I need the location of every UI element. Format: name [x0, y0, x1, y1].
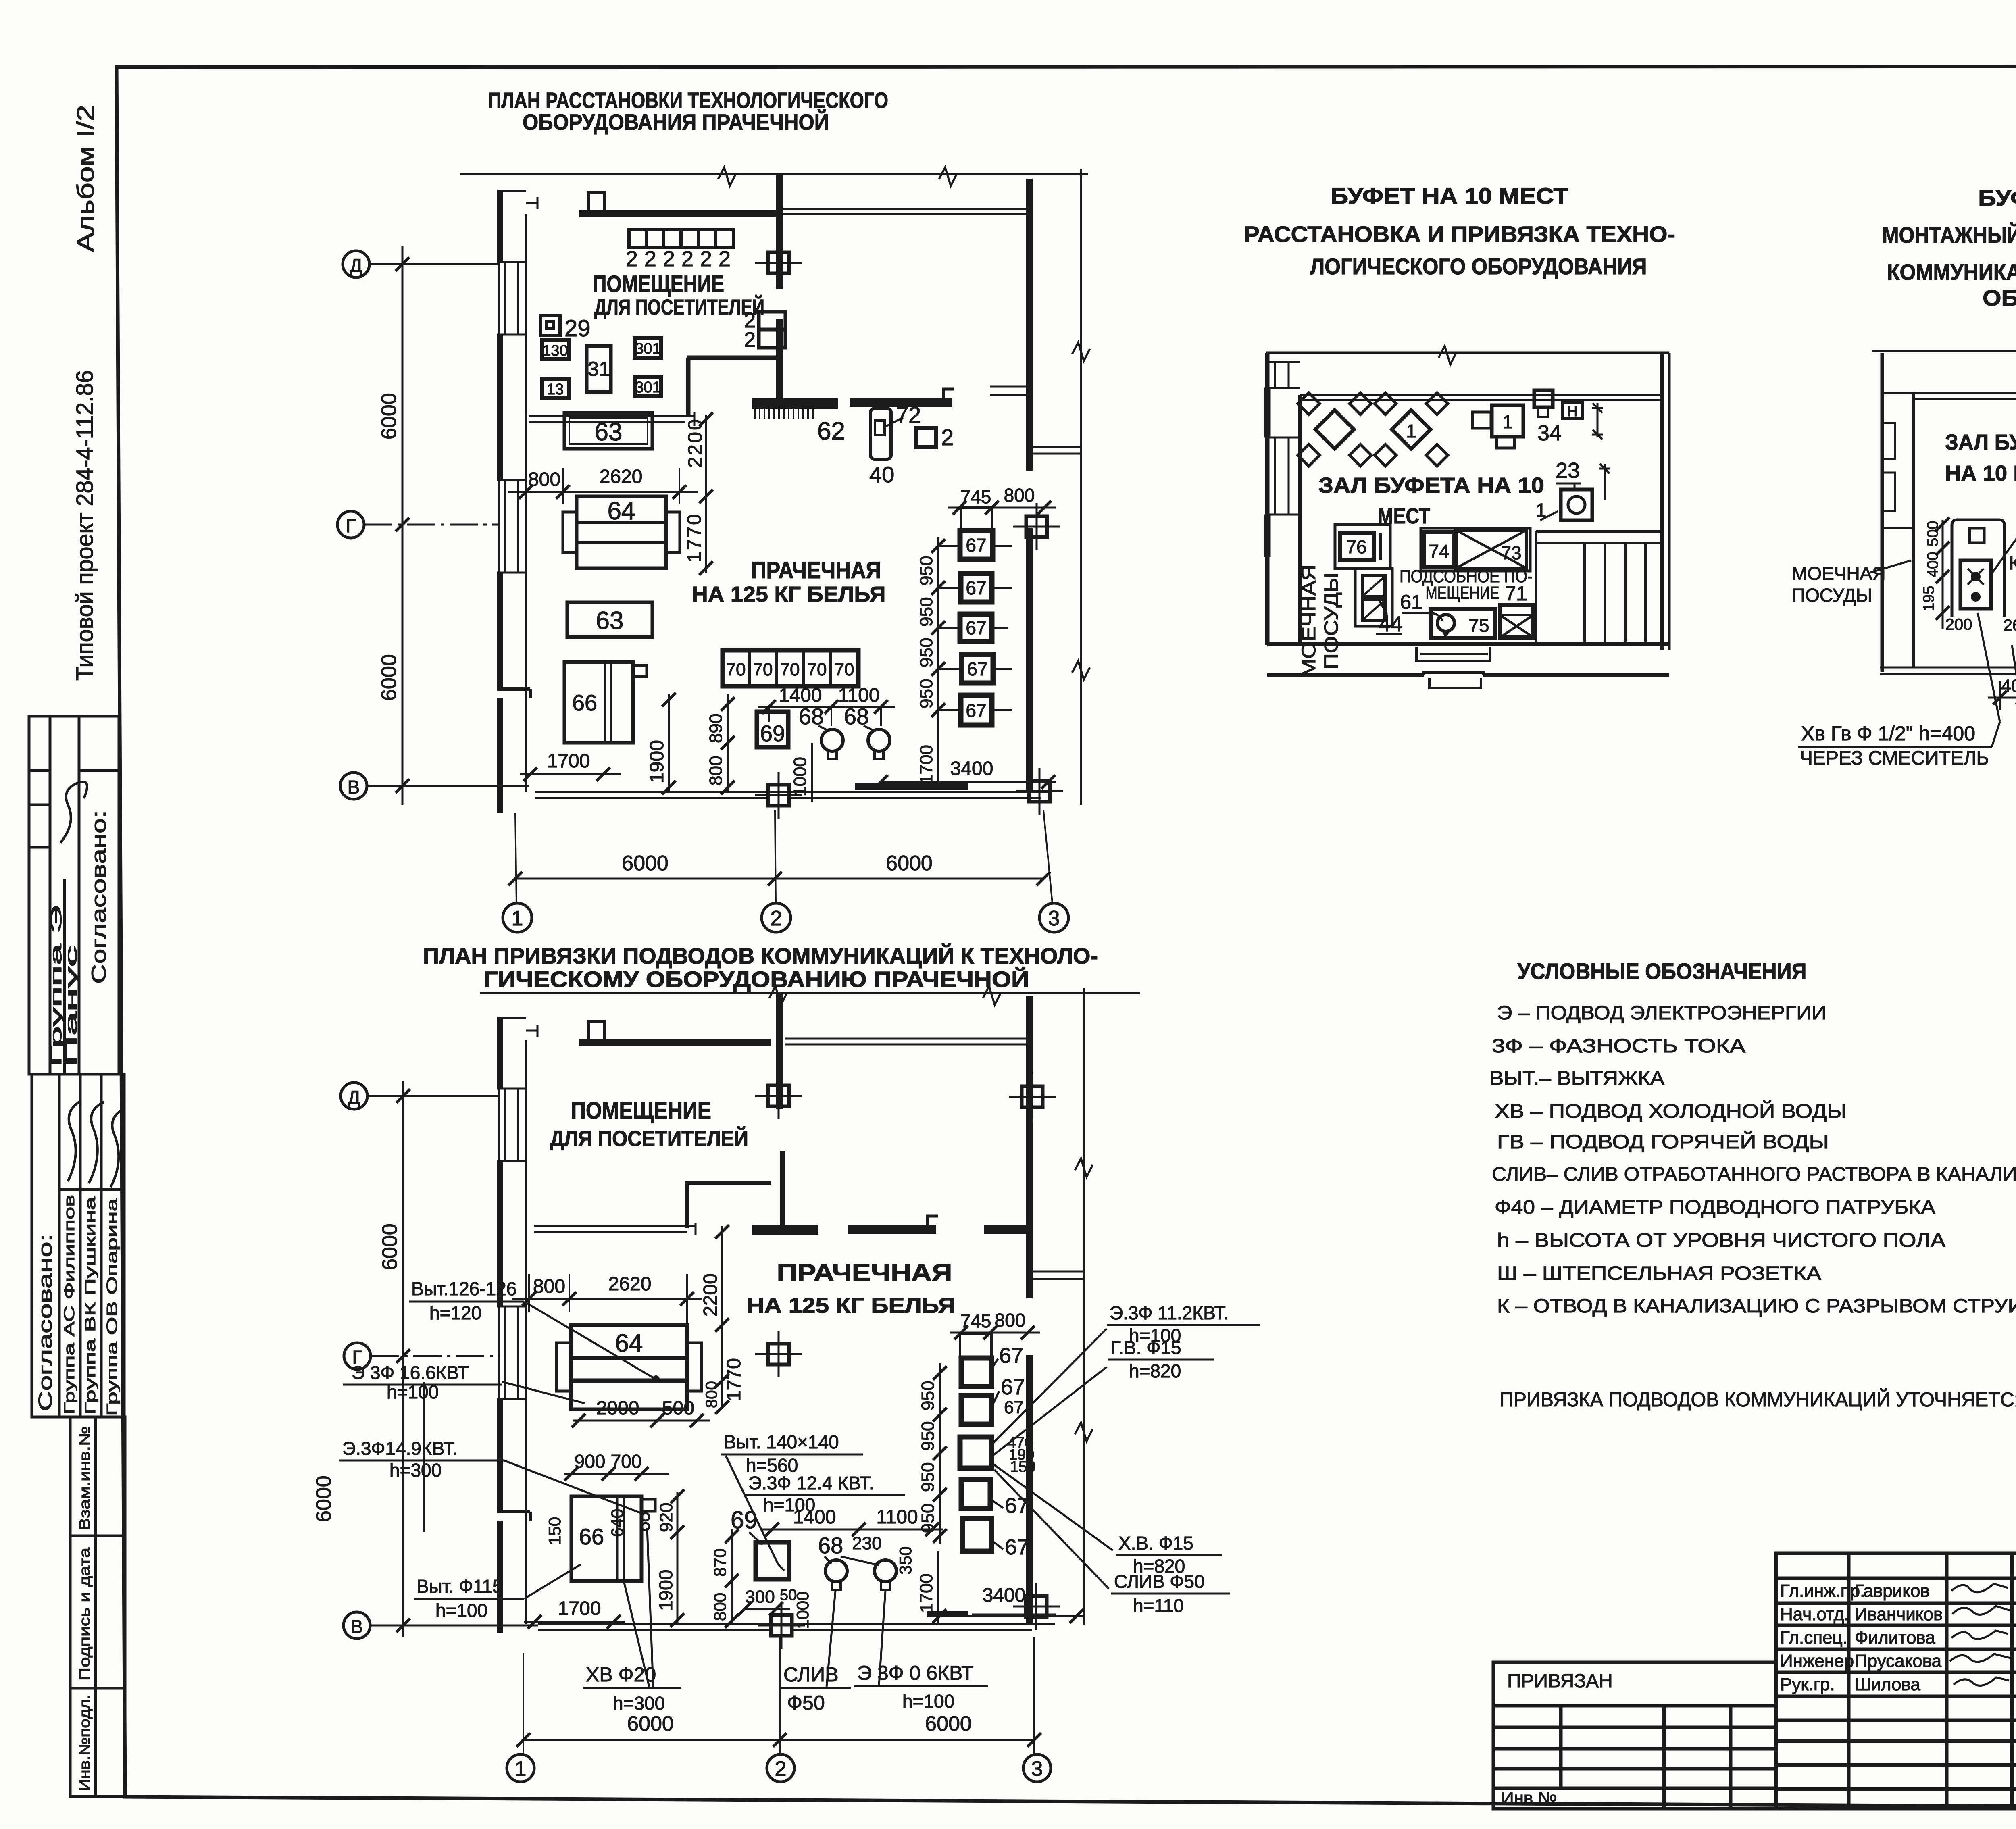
- plan3 unit 74 73: [1421, 528, 1530, 571]
- svg-text:230: 230: [852, 1533, 881, 1553]
- plan4 label Моечная посуды: [1792, 560, 1911, 606]
- svg-text:Г: Г: [346, 515, 356, 536]
- plan2 callout ХВ Ф20: [583, 1528, 681, 1714]
- svg-text:6000: 6000: [925, 1712, 972, 1735]
- svg-text:Инв.№: Инв.№: [1501, 1788, 1557, 1808]
- svg-text:ДЛЯ ПОСЕТИТЕЛЕЙ: ДЛЯ ПОСЕТИТЕЛЕЙ: [550, 1126, 748, 1151]
- svg-text:h=100: h=100: [435, 1600, 487, 1621]
- column marker axis2 at В: [758, 1602, 805, 1649]
- svg-text:h=820: h=820: [1129, 1360, 1181, 1381]
- plan2 dim 2000/500: [572, 1398, 710, 1427]
- svg-text:К – ОТВОД В КАНАЛИЗАЦИЮ С: К – ОТВОД В КАНАЛИЗАЦИЮ С РАЗРЫВОМ СТРУИ…: [1497, 1296, 2016, 1317]
- svg-text:К: К: [2009, 552, 2016, 573]
- plan2 inner partition: [685, 1183, 771, 1228]
- plan1 partition wall axis2 upper: [776, 175, 783, 289]
- svg-text:1400: 1400: [793, 1506, 836, 1528]
- svg-text:1700: 1700: [916, 1573, 936, 1613]
- plan2 callout Выт.126-126: [409, 1278, 655, 1379]
- svg-text:67: 67: [966, 577, 986, 598]
- svg-text:150: 150: [1010, 1458, 1035, 1475]
- plan2 axis circle 2: [767, 1754, 794, 1782]
- axis circle 2: [762, 903, 791, 932]
- svg-text:МОНТАЖНЫЙ ПЛАН ПРИВЯЗКИ ПОДВОД: МОНТАЖНЫЙ ПЛАН ПРИВЯЗКИ ПОДВОДОВ: [1882, 222, 2016, 248]
- plan4 bottom dims 400 400 1600: [1988, 675, 2016, 710]
- column marker axis3 at Д level: [1009, 1073, 1056, 1120]
- plan3 stairs: [1536, 531, 1662, 642]
- column marker axis3 at В: [1016, 768, 1063, 815]
- title block outer: [1776, 1553, 2016, 1809]
- svg-text:В: В: [351, 1616, 363, 1637]
- plan2 callout Слив Ф50: [781, 1591, 851, 1714]
- svg-text:950: 950: [916, 679, 936, 708]
- svg-text:Группа АС Филиппов: Группа АС Филиппов: [61, 1195, 77, 1414]
- svg-text:Рук.гр.: Рук.гр.: [1780, 1675, 1835, 1694]
- svg-text:Э.3Ф 12.4 КВТ.: Э.3Ф 12.4 КВТ.: [748, 1473, 874, 1494]
- plan2 callout Э 3Ф 06КВТ: [854, 1591, 988, 1712]
- equipment 69: [757, 712, 788, 747]
- svg-text:МОЕЧНАЯ: МОЕЧНАЯ: [1298, 565, 1320, 677]
- svg-text:Выт.126-126: Выт.126-126: [411, 1278, 516, 1299]
- plan1 visitors room bottom counter line: [529, 412, 694, 426]
- svg-text:64: 64: [615, 1329, 643, 1357]
- plan2 callout Э.3Ф 11.2КВТ: [1107, 1302, 1260, 1346]
- equipment 130: [542, 340, 569, 359]
- svg-text:НА 125 КГ БЕЛЬЯ: НА 125 КГ БЕЛЬЯ: [747, 1294, 956, 1318]
- equipment 31: [587, 346, 611, 392]
- plan2 top wall right thin extension: [785, 1039, 1026, 1044]
- svg-text:67: 67: [1005, 1494, 1029, 1518]
- svg-text:Выт. 140×140: Выт. 140×140: [724, 1431, 839, 1452]
- svg-text:БУФЕТ НА 10 МЕСТ: БУФЕТ НА 10 МЕСТ: [1978, 185, 2016, 210]
- plan2 right wall lower: [1026, 1355, 1033, 1624]
- svg-text:Филитова: Филитова: [1855, 1628, 1935, 1648]
- equipment 29: [541, 315, 591, 342]
- svg-text:Х.В. Ф15: Х.В. Ф15: [1118, 1533, 1193, 1554]
- plan1 bottom wall bar: [855, 783, 968, 790]
- svg-text:950: 950: [918, 1504, 938, 1533]
- plan2 axis circle Г: [344, 1343, 500, 1369]
- svg-text:Взам.инв.№: Взам.инв.№: [76, 1426, 93, 1530]
- equipment 68 b: [868, 729, 890, 759]
- svg-text:64: 64: [608, 497, 635, 525]
- svg-text:2620: 2620: [608, 1273, 652, 1295]
- plan4 sink 44: [1952, 520, 2004, 617]
- svg-text:В: В: [348, 777, 360, 798]
- approval table 1: [29, 716, 119, 1074]
- svg-text:ПОСУДЫ: ПОСУДЫ: [1321, 573, 1342, 669]
- svg-text:1100: 1100: [838, 685, 879, 706]
- plan2 bottom wall bar: [927, 1611, 968, 1617]
- label 68 b: [844, 704, 876, 731]
- plan2 axis circle В: [344, 1612, 538, 1639]
- plan2 branch to dim line: [1033, 1271, 1084, 1279]
- plan4 sink dim chain: [1920, 517, 2016, 634]
- plan4 top dim line: [1872, 344, 2016, 363]
- plan2 dim 800/2620: [512, 1273, 702, 1325]
- plan2 dim 640/150/920/1900: [545, 1489, 684, 1627]
- plan1 left axis dim line: [377, 246, 409, 805]
- svg-text:67: 67: [966, 535, 986, 556]
- svg-text:950: 950: [916, 638, 936, 667]
- svg-text:1700: 1700: [558, 1598, 601, 1619]
- svg-text:950: 950: [918, 1421, 938, 1451]
- svg-text:6000: 6000: [622, 852, 669, 875]
- plan2 dim 950 chain: [918, 1363, 947, 1544]
- plan2 partition wall axis2 mid stub: [780, 1151, 785, 1225]
- plan2 wall bar mid: [848, 1216, 938, 1234]
- svg-text:76: 76: [1346, 536, 1366, 557]
- svg-text:h=120: h=120: [429, 1302, 481, 1323]
- svg-text:3400: 3400: [950, 758, 993, 779]
- equipment 70 row: [723, 650, 858, 686]
- svg-text:1900: 1900: [646, 740, 668, 783]
- svg-text:67: 67: [966, 700, 986, 721]
- axis circle Д: [343, 251, 500, 277]
- svg-text:Нач.отд.: Нач.отд.: [1780, 1604, 1849, 1624]
- svg-text:301: 301: [635, 340, 660, 357]
- signatures: [1950, 1584, 2011, 1685]
- svg-text:1: 1: [1406, 421, 1416, 442]
- svg-text:1770: 1770: [723, 1358, 745, 1401]
- plan1 partition wall axis2 lower: [776, 319, 783, 400]
- svg-text:350: 350: [896, 1546, 915, 1575]
- plan2 axis circle Д: [341, 1083, 500, 1109]
- plan2 label 68: [818, 1533, 879, 1565]
- plan2 dims 1700/3400 right: [916, 1551, 1084, 1625]
- plan1 dim 1700: [520, 750, 621, 781]
- svg-text:ХВ – ПОДВОД ХОЛОДНОЙ ВОДЫ: ХВ – ПОДВОД ХОЛОДНОЙ ВОДЫ: [1495, 1100, 1847, 1122]
- svg-text:44: 44: [1379, 612, 1403, 636]
- svg-text:1: 1: [515, 1757, 527, 1781]
- plan4 label 44: [1991, 496, 2016, 575]
- plan3 fridge 1: [1472, 405, 1523, 448]
- svg-text:МОЕЧНАЯ: МОЕЧНАЯ: [1792, 563, 1886, 584]
- privyazan block: [1493, 1662, 1776, 1809]
- svg-text:67: 67: [1001, 1375, 1025, 1399]
- svg-text:1: 1: [512, 907, 523, 930]
- svg-text:ГИЧЕСКОМУ ОБОРУДОВАНИЮ ПРАЧЕЧН: ГИЧЕСКОМУ ОБОРУДОВАНИЮ ПРАЧЕЧНОЙ: [484, 967, 1029, 992]
- plan2 callout bracket line: [423, 1382, 425, 1532]
- svg-text:ПРИВЯЗКА ПОДВОДОВ КОММУНИКАЦ: ПРИВЯЗКА ПОДВОДОВ КОММУНИКАЦИЙ УТОЧНЯЕТС…: [1500, 1388, 2016, 1411]
- svg-text:800: 800: [533, 1276, 565, 1297]
- plan4 bottom callout ХВ вентиль: [2012, 645, 2016, 815]
- column marker axis3 at В: [1013, 1583, 1060, 1630]
- svg-text:Г.В. Ф15: Г.В. Ф15: [1111, 1337, 1181, 1358]
- svg-text:Д: Д: [348, 1087, 360, 1108]
- svg-text:70: 70: [726, 660, 746, 679]
- plan1 dim 1000: [790, 743, 812, 802]
- plan3 crossed box 71: [1500, 605, 1533, 637]
- plan2 wall bar right: [984, 1225, 1031, 1234]
- svg-text:ПОМЕЩЕНИЕ: ПОМЕЩЕНИЕ: [593, 271, 724, 297]
- svg-text:Э 3Ф 16.6КВТ: Э 3Ф 16.6КВТ: [352, 1362, 469, 1383]
- svg-text:400: 400: [1924, 552, 1941, 577]
- plan1 counter T-bar with comb 62: [752, 398, 838, 419]
- plan3 label 44: [1376, 600, 1403, 636]
- plan2 dim 1700: [524, 1598, 625, 1629]
- svg-text:640: 640: [608, 1509, 627, 1537]
- svg-text:6000: 6000: [377, 654, 401, 701]
- svg-text:Группа ВК Пушкина: Группа ВК Пушкина: [82, 1196, 98, 1414]
- svg-text:Инженер: Инженер: [1780, 1651, 1854, 1671]
- svg-text:3: 3: [1031, 1757, 1043, 1781]
- svg-text:h=100: h=100: [387, 1381, 439, 1402]
- svg-text:500: 500: [1924, 521, 1941, 546]
- svg-text:745: 745: [960, 1310, 991, 1331]
- svg-text:ЧЕРЕЗ СМЕСИТЕЛЬ: ЧЕРЕЗ СМЕСИТЕЛЬ: [1800, 748, 1989, 769]
- plan1 right dim boundary line: [1072, 169, 1090, 805]
- svg-text:УСЛОВНЫЕ ОБОЗНАЧЕНИЯ: УСЛОВНЫЕ ОБОЗНАЧЕНИЯ: [1518, 958, 1807, 984]
- plan2 left axis dim line: [312, 1081, 410, 1637]
- equipment 68 a: [821, 729, 843, 759]
- svg-text:800: 800: [528, 469, 560, 490]
- column marker axis2 at Г level: [755, 1331, 802, 1377]
- svg-text:ПРАЧЕЧНАЯ: ПРАЧЕЧНАЯ: [751, 557, 881, 583]
- svg-text:130: 130: [542, 342, 568, 359]
- svg-text:3: 3: [1048, 907, 1060, 930]
- label 68 a: [799, 704, 830, 731]
- svg-text:2000: 2000: [596, 1398, 639, 1419]
- svg-text:75: 75: [1468, 615, 1489, 636]
- svg-text:920: 920: [656, 1503, 676, 1532]
- plan2 dim 745/800: [950, 1310, 1040, 1339]
- svg-text:Согласовано:: Согласовано:: [87, 810, 110, 984]
- equipment 72: [871, 402, 921, 459]
- svg-text:h – ВЫСОТА ОТ УРОВНЯ ЧИСТ: h – ВЫСОТА ОТ УРОВНЯ ЧИСТОГО ПОЛА: [1497, 1230, 1945, 1251]
- svg-text:800: 800: [710, 1593, 729, 1621]
- plan2 callout Слив Ф50 right: [1111, 1571, 1230, 1616]
- svg-text:Э.3Ф 11.2КВТ.: Э.3Ф 11.2КВТ.: [1110, 1302, 1229, 1323]
- svg-text:Иванчиков: Иванчиков: [1855, 1604, 1943, 1624]
- svg-text:ПРАЧЕЧНАЯ: ПРАЧЕЧНАЯ: [777, 1260, 952, 1286]
- svg-text:71: 71: [1505, 582, 1527, 605]
- svg-text:Гавриков: Гавриков: [1855, 1581, 1930, 1601]
- svg-text:ЛОГИЧЕСКОГО ОБОРУДОВАНИЯ: ЛОГИЧЕСКОГО ОБОРУДОВАНИЯ: [1310, 254, 1647, 279]
- plan3 top wall: [1266, 346, 1669, 365]
- svg-text:Согласовано:: Согласовано:: [35, 1234, 56, 1411]
- svg-text:2: 2: [744, 328, 756, 352]
- svg-text:67: 67: [1005, 1535, 1029, 1559]
- plan2 callout Выт Ф115: [414, 1564, 581, 1621]
- plan3 right wall: [1662, 353, 1669, 650]
- svg-text:Альбом I/2: Альбом I/2: [73, 105, 99, 252]
- svg-text:950: 950: [918, 1381, 938, 1410]
- plan2 partition wall axis2 upper: [776, 994, 783, 1109]
- svg-text:Ф40 – ДИАМЕТР ПОДВОДНОГО ПАТ: Ф40 – ДИАМЕТР ПОДВОДНОГО ПАТРУБКА: [1495, 1197, 1935, 1218]
- axis circle В: [340, 773, 529, 799]
- svg-text:1400: 1400: [779, 685, 822, 706]
- svg-text:Группа ОВ Опарина: Группа ОВ Опарина: [104, 1198, 120, 1416]
- plan2 callout Х.В. Ф15: [1116, 1533, 1222, 1577]
- svg-text:РАССТАНОВКА И ПРИВЯЗКА ТЕХНО-: РАССТАНОВКА И ПРИВЯЗКА ТЕХНО-: [1244, 221, 1675, 247]
- column marker axis3 at Г: [1013, 503, 1060, 550]
- plan2 dim 900/700: [564, 1451, 669, 1481]
- svg-text:НА 10 МЕСТ: НА 10 МЕСТ: [1945, 461, 2016, 485]
- svg-text:ЗАЛ БУФЕТА: ЗАЛ БУФЕТА: [1945, 430, 2016, 454]
- svg-text:900: 900: [575, 1451, 606, 1472]
- svg-text:29: 29: [564, 315, 591, 342]
- plan3 table 1: [1298, 393, 1371, 466]
- svg-text:62: 62: [817, 417, 845, 445]
- signature: [60, 782, 87, 843]
- signature: [110, 1109, 124, 1187]
- plan2 callout Э 3Ф 16.6КВТ: [343, 1362, 585, 1403]
- plan1 wall bar mid: [850, 389, 954, 407]
- axis circle 3: [1039, 903, 1068, 932]
- svg-text:Э – ПОДВОД ЭЛЕКТРОЭНЕРГИИ: Э – ПОДВОД ЭЛЕКТРОЭНЕРГИИ: [1497, 1002, 1826, 1024]
- svg-text:200: 200: [1945, 616, 1972, 633]
- equipment 301 a: [635, 338, 661, 358]
- svg-text:1700: 1700: [916, 745, 936, 784]
- plan2 equipment 67 column: [960, 1334, 991, 1358]
- svg-text:950: 950: [918, 1462, 938, 1492]
- equipment 63 b: [567, 602, 652, 637]
- plan3 item H: [1562, 402, 1583, 419]
- svg-text:ЗАЛ БУФЕТА НА 10: ЗАЛ БУФЕТА НА 10: [1318, 473, 1544, 498]
- plan2 dims 470/190/150: [1008, 1434, 1035, 1475]
- plan2 top boundary line: [480, 986, 1140, 1005]
- plan1 right wall lower: [1026, 528, 1033, 792]
- svg-text:70: 70: [753, 660, 773, 679]
- svg-text:700: 700: [611, 1451, 642, 1472]
- plan1 dim 6000+6000 bottom: [508, 810, 1052, 903]
- plan4 left wall: [1882, 353, 1913, 672]
- plan2 leader fan to right callouts: [993, 1329, 1113, 1589]
- svg-text:Инв.№подл.: Инв.№подл.: [76, 1694, 93, 1791]
- equipment 66: [564, 662, 647, 743]
- svg-text:34: 34: [1537, 421, 1562, 445]
- svg-text:31: 31: [587, 358, 610, 380]
- plan3 left wall: [1264, 353, 1300, 645]
- svg-text:Подпись и дата: Подпись и дата: [76, 1547, 93, 1681]
- plan2 room bottom counter line: [534, 1223, 696, 1235]
- plan3 item 34: [1534, 390, 1562, 445]
- plan2 right dim boundary line: [1075, 988, 1093, 1625]
- svg-text:Прусакова: Прусакова: [1855, 1651, 1942, 1671]
- equipment 301 b: [635, 377, 661, 396]
- plan3 table 2: [1375, 393, 1448, 466]
- svg-text:800: 800: [1004, 485, 1035, 506]
- svg-text:h=300: h=300: [389, 1460, 442, 1481]
- svg-text:Гл.инж.пр.: Гл.инж.пр.: [1780, 1581, 1865, 1601]
- column marker axis2 top: [755, 240, 802, 286]
- svg-text:6000: 6000: [312, 1475, 335, 1522]
- svg-text:СЛИВ: СЛИВ: [783, 1663, 839, 1686]
- svg-text:1000: 1000: [793, 1592, 812, 1629]
- plan1 dim 745/800: [948, 485, 1056, 515]
- svg-text:870: 870: [710, 1548, 729, 1577]
- svg-text:70: 70: [780, 660, 800, 679]
- chairs row 2x6: [629, 230, 733, 247]
- plan2 equipment 69: [731, 1506, 789, 1579]
- svg-text:ОБОРУДОВАНИЯ ПРАЧЕЧНОЙ: ОБОРУДОВАНИЯ ПРАЧЕЧНОЙ: [523, 109, 829, 135]
- plan2 equipment 68 circles: [825, 1560, 896, 1590]
- svg-text:1100: 1100: [876, 1506, 918, 1528]
- column marker axis2 at Д level: [755, 1073, 802, 1119]
- svg-text:3400: 3400: [983, 1585, 1026, 1606]
- plan2 T-bar: [752, 1225, 818, 1235]
- equipment 67 column open box: [961, 508, 992, 531]
- svg-text:МЕЩЕНИЕ: МЕЩЕНИЕ: [1426, 583, 1500, 603]
- column marker axis2 at В: [755, 772, 802, 819]
- svg-text:Д: Д: [350, 255, 362, 276]
- svg-text:67: 67: [967, 658, 987, 679]
- svg-text:Шилова: Шилова: [1855, 1675, 1920, 1694]
- svg-text:НА 125 КГ БЕЛЬЯ: НА 125 КГ БЕЛЬЯ: [692, 582, 886, 606]
- svg-text:Э.3Ф14.9КВТ.: Э.3Ф14.9КВТ.: [342, 1438, 458, 1459]
- svg-text:68: 68: [818, 1533, 843, 1558]
- svg-text:745: 745: [960, 486, 991, 507]
- plan3 vestibule: [1416, 647, 1490, 688]
- plan2 dim 1400/1100: [762, 1506, 943, 1536]
- svg-text:ВЫТ.– ВЫТЯЖКА: ВЫТ.– ВЫТЯЖКА: [1489, 1068, 1664, 1089]
- svg-text:6000: 6000: [627, 1712, 674, 1735]
- plan3 wash unit: [1355, 569, 1392, 626]
- svg-text:70: 70: [835, 660, 854, 679]
- svg-text:h=300: h=300: [613, 1693, 665, 1714]
- svg-text:Панус: Панус: [62, 946, 80, 1067]
- plan1 top boundary line: [460, 167, 1088, 186]
- svg-text:890: 890: [706, 714, 726, 743]
- svg-text:2200: 2200: [700, 1273, 721, 1317]
- plan2 callout Выт.140х140 stack: [721, 1431, 905, 1571]
- svg-text:СЛИВ– СЛИВ ОТРАБОТАННОГО РАС: СЛИВ– СЛИВ ОТРАБОТАННОГО РАСТВОРА В КАНА…: [1492, 1164, 2016, 1185]
- svg-text:67: 67: [966, 617, 986, 638]
- equipment 64 washing machine: [563, 496, 680, 568]
- svg-text:h=100: h=100: [902, 1691, 954, 1712]
- svg-text:3Ф – ФАЗНОСТЬ ТОКА: 3Ф – ФАЗНОСТЬ ТОКА: [1492, 1035, 1745, 1057]
- equipment 2 b: [916, 425, 954, 450]
- svg-text:ПРИВЯЗАН: ПРИВЯЗАН: [1507, 1671, 1613, 1692]
- svg-text:2: 2: [771, 907, 782, 930]
- svg-text:ПОМЕЩЕНИЕ: ПОМЕЩЕНИЕ: [571, 1098, 711, 1124]
- plan3 item 23: [1536, 458, 1610, 521]
- svg-text:66: 66: [579, 1524, 604, 1549]
- plan1 right wall: [1026, 179, 1033, 471]
- svg-text:400: 400: [2001, 676, 2016, 696]
- plan1 branch to dim line: [1033, 447, 1081, 454]
- plan1 bottom wall bar: [855, 783, 968, 790]
- plan1 dim 2200/1770 vertical: [684, 412, 713, 575]
- svg-text:950: 950: [916, 597, 936, 627]
- plan2 dims 230/350: [852, 1533, 915, 1575]
- plan2 dims 870/800/300/50/1000: [710, 1529, 812, 1629]
- plan1 top wall right thin extension: [783, 209, 1026, 214]
- plan2 axis circle 3: [1023, 1754, 1051, 1782]
- plan2 equipment 66: [571, 1496, 655, 1581]
- plan1 dim 3400: [874, 758, 1056, 789]
- plan4 top wall: [1913, 393, 2016, 399]
- plan2 axis circle 1: [507, 1754, 534, 1782]
- svg-text:66: 66: [572, 690, 597, 715]
- svg-text:67: 67: [999, 1344, 1023, 1368]
- svg-text:13: 13: [547, 381, 564, 398]
- equipment 2 stack: [744, 309, 785, 352]
- svg-text:63: 63: [596, 607, 624, 635]
- plan4 bottom callout ХВ ГВ: [1798, 613, 2000, 769]
- svg-text:Выт. Ф115: Выт. Ф115: [417, 1576, 503, 1597]
- svg-text:61: 61: [1400, 591, 1422, 613]
- svg-text:72: 72: [896, 402, 921, 427]
- svg-text:6000: 6000: [378, 1223, 402, 1270]
- svg-text:950: 950: [916, 556, 936, 585]
- svg-text:Хв Гв Ф 1/2" h=400: Хв Гв Ф 1/2" h=400: [1801, 722, 1975, 745]
- svg-text:301: 301: [635, 379, 660, 396]
- svg-text:ОБОРУДОВАНИЮ: ОБОРУДОВАНИЮ: [1983, 285, 2016, 310]
- svg-text:ПЛАН ПРИВЯЗКИ ПОДВОДОВ КОММУНИ: ПЛАН ПРИВЯЗКИ ПОДВОДОВ КОММУНИКАЦИЙ К ТЕ…: [423, 943, 1098, 969]
- svg-text:2620: 2620: [600, 466, 643, 487]
- plan1 dim 950 chain: [916, 537, 1012, 788]
